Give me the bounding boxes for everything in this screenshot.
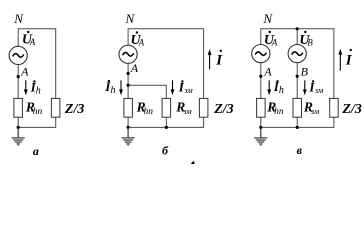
junction dot bottom Rzm v: [296, 126, 299, 129]
current arrow Ih v: [267, 80, 271, 95]
svg-text:в: в: [297, 143, 303, 157]
junction dot bottom a: [17, 126, 20, 129]
svg-text:h: h: [111, 85, 116, 96]
junction dot top v: [296, 27, 299, 30]
ground v: [254, 127, 267, 145]
wire source-to-resistor b: [127, 63, 129, 98]
sine symbol a: [13, 54, 24, 58]
dot of UA a: [27, 31, 29, 33]
svg-text:hn: hn: [274, 107, 284, 117]
resistor Z/3 b: [199, 98, 208, 117]
svg-text:A: A: [263, 65, 272, 79]
current arrow I v: [338, 49, 342, 71]
wire source B drop v: [296, 29, 298, 45]
resistor Rzm v: [293, 98, 302, 117]
svg-text:A: A: [138, 38, 145, 48]
svg-text:N: N: [125, 11, 136, 26]
svg-text:Z/3: Z/3: [64, 102, 84, 117]
sine symbol b: [123, 53, 134, 57]
dot of UA v: [269, 31, 271, 33]
current arrow Izm v: [303, 80, 307, 95]
cropped glyph bottom center: [191, 161, 195, 164]
wire branch to Rzm b: [128, 85, 166, 98]
svg-text:зм: зм: [182, 106, 192, 116]
svg-text:A: A: [271, 37, 278, 47]
svg-text:hn: hn: [144, 107, 154, 117]
svg-text:зм: зм: [183, 85, 193, 95]
wire top rail v: [261, 29, 334, 99]
node A dot b: [127, 72, 130, 75]
ground a: [12, 127, 25, 145]
sine symbol UA v: [255, 52, 266, 56]
dot of Ih a: [33, 80, 35, 82]
source UA circle b: [119, 45, 137, 63]
svg-text:N: N: [13, 11, 24, 26]
node A dot v: [259, 75, 262, 78]
svg-text:B: B: [307, 37, 313, 47]
junction dot b: [127, 84, 130, 87]
svg-text:Z/3: Z/3: [213, 102, 233, 117]
svg-text:зм: зм: [314, 85, 324, 95]
wire sourceB-to-resistor v: [296, 63, 298, 99]
wire top rail b: [128, 29, 204, 99]
svg-text:I: I: [215, 52, 223, 68]
resistor Rhn b: [124, 98, 132, 117]
wire Rzm bottom v: [296, 117, 298, 127]
wire bottom rail v: [261, 117, 334, 127]
junction dot bottom Rhn b: [127, 126, 130, 129]
junction dot bottom Rhn v: [259, 126, 262, 129]
svg-text:б: б: [162, 144, 169, 158]
current arrow I b: [208, 49, 212, 69]
dot of I b: [220, 50, 222, 52]
svg-text:A: A: [29, 37, 36, 47]
svg-text:hn: hn: [33, 107, 43, 117]
current arrow Izm b: [171, 80, 175, 95]
svg-text:h: h: [279, 85, 284, 96]
current arrow Ih b: [119, 80, 123, 95]
wire bottom rail b: [128, 117, 204, 127]
dot of UA b: [136, 31, 138, 33]
source UA circle v: [252, 45, 270, 63]
dot of I v: [350, 49, 352, 51]
wire sourceA-to-resistor v: [260, 63, 262, 99]
svg-text:A: A: [20, 64, 29, 78]
node B dot v: [296, 75, 299, 78]
dot of UB v: [304, 31, 306, 33]
wire Rzm bottom b: [165, 117, 167, 127]
dot of Izm b: [181, 80, 183, 82]
wire source-to-resistor a: [17, 65, 19, 99]
svg-text:зм: зм: [310, 106, 320, 116]
sine symbol UB v: [292, 52, 303, 56]
svg-text:B: B: [301, 65, 309, 79]
node A dot a: [17, 75, 20, 78]
wire bottom rail a: [18, 117, 56, 127]
wire top rail a: [18, 29, 56, 99]
svg-text:A: A: [130, 61, 139, 75]
svg-text:а: а: [33, 144, 39, 158]
resistor Rzm b: [162, 98, 171, 117]
source UA circle a: [9, 46, 27, 64]
svg-text:Z/3: Z/3: [341, 102, 361, 117]
resistor Rhn a: [14, 98, 23, 117]
svg-text:N: N: [262, 11, 273, 26]
junction dot bottom Rzm b: [165, 126, 168, 129]
current arrow Ih a: [24, 80, 28, 95]
source UB circle v: [288, 45, 306, 63]
dot of Ih b: [108, 80, 110, 82]
svg-text:h: h: [36, 85, 41, 96]
dot of Izm v: [312, 80, 314, 82]
dot of Ih v: [276, 80, 278, 82]
ground b: [122, 127, 135, 145]
resistor Z/3 v: [330, 98, 339, 117]
svg-text:I: I: [345, 53, 353, 69]
resistor Rhn v: [257, 98, 266, 117]
resistor Z/3 a: [51, 98, 60, 117]
